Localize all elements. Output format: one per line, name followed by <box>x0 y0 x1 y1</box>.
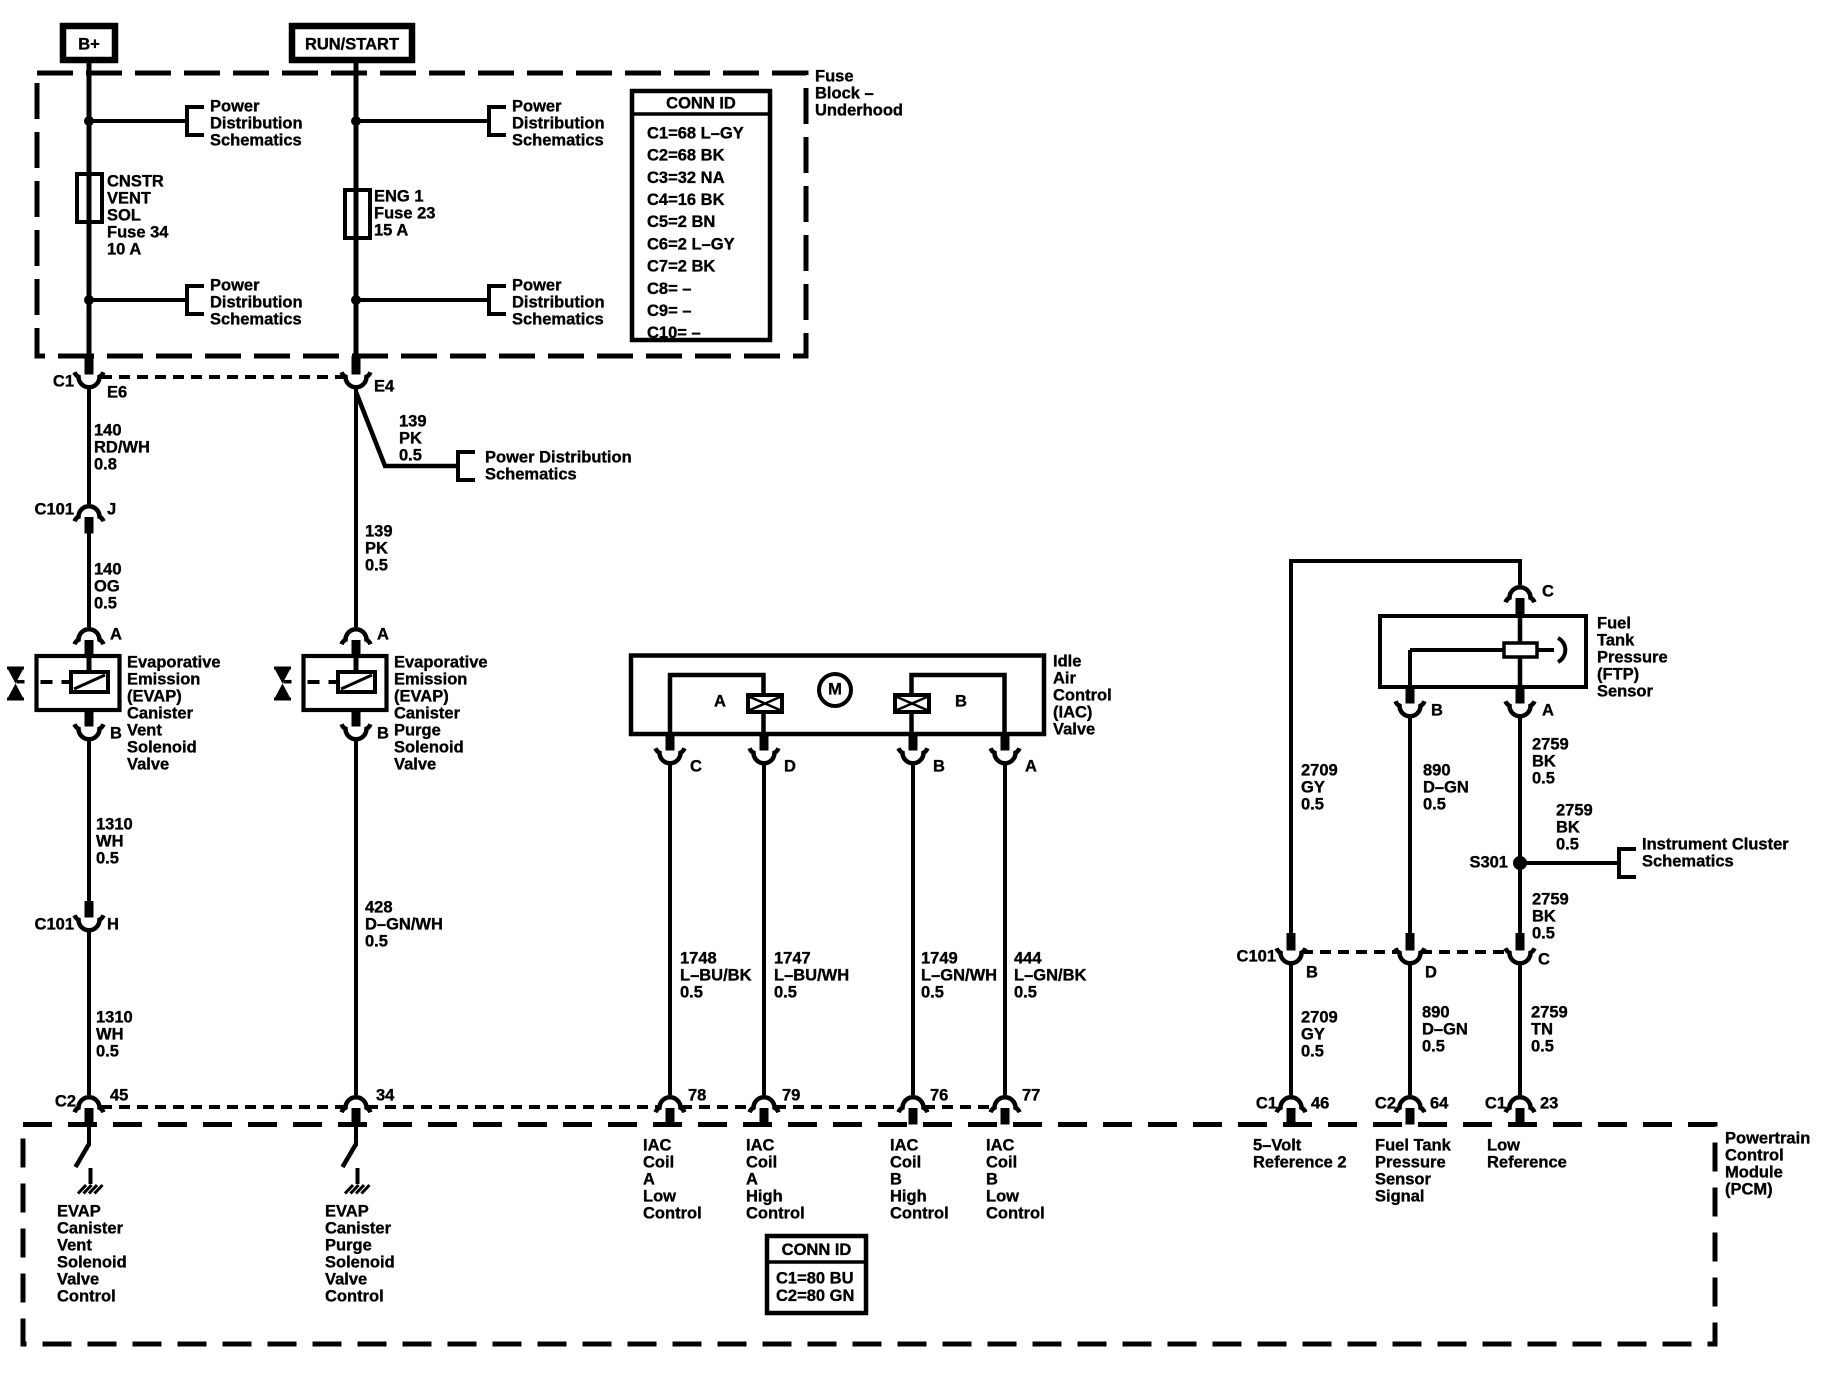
wire branch to power distribution lower right <box>356 298 489 302</box>
svg-text:M: M <box>828 680 842 698</box>
svg-text:D: D <box>1425 964 1437 982</box>
connector C101 mating dashed line right <box>1302 950 1399 954</box>
connector pin A purge solenoid <box>342 629 371 644</box>
junction dot RUN upper <box>351 116 361 126</box>
connector C101 pin B <box>1287 933 1296 951</box>
svg-text:A: A <box>1542 702 1554 720</box>
connector C1 pin E4 <box>352 356 361 375</box>
reference Power Distribution Schematics lower left <box>187 286 204 314</box>
connector pin A FTP <box>1516 687 1525 704</box>
power feed RUN/START terminal <box>292 26 412 60</box>
svg-text:C: C <box>690 758 702 776</box>
svg-text:77: 77 <box>1022 1087 1040 1105</box>
connector C101 pin H <box>85 901 94 918</box>
svg-text:64: 64 <box>1430 1095 1449 1113</box>
PCM driver EVAP purge solenoid control <box>354 1127 358 1146</box>
svg-text:J: J <box>107 501 116 519</box>
wire 2759 TN 0.5 <box>1518 963 1522 1095</box>
svg-text:H: H <box>107 916 119 934</box>
svg-text:C1: C1 <box>53 373 74 391</box>
svg-text:CONN ID: CONN ID <box>666 94 736 112</box>
svg-text:76: 76 <box>930 1087 948 1105</box>
svg-text:B: B <box>1306 964 1318 982</box>
CONN ID table PCM <box>767 1236 866 1313</box>
fuse block underhood dashed box <box>37 73 806 356</box>
svg-text:34: 34 <box>376 1087 395 1105</box>
wire 140 RD/WH 0.8 <box>87 389 91 504</box>
PCM powertrain control module dashed box <box>23 1125 1715 1345</box>
PCM driver EVAP vent solenoid control <box>87 1127 91 1146</box>
EVAP canister vent solenoid valve <box>37 656 120 710</box>
fuse F34 CNSTR VENT SOL 10A <box>77 174 102 222</box>
svg-text:B: B <box>110 725 122 743</box>
wire 2709 GY 0.5 lower <box>1289 963 1293 1095</box>
wire 2759 BK 0.5 upper <box>1518 716 1522 863</box>
svg-text:RUN/START: RUN/START <box>305 35 399 53</box>
svg-text:79: 79 <box>782 1087 800 1105</box>
connector C1 pin E6 <box>85 356 94 375</box>
svg-text:B+: B+ <box>78 35 100 53</box>
connector C2 pin 64 <box>1396 1097 1425 1112</box>
connector pin B IAC <box>909 734 918 751</box>
connector pin 77 <box>991 1097 1020 1112</box>
junction dot RUN lower <box>351 295 361 305</box>
wire 1310 WH 0.5 lower <box>87 930 91 1095</box>
svg-text:E6: E6 <box>107 384 127 402</box>
wire 139 PK 0.5 vertical <box>354 389 358 627</box>
wire branch to power distribution upper left <box>89 119 187 123</box>
reference Instrument Cluster Schematics <box>1619 849 1636 877</box>
svg-text:C101: C101 <box>35 501 74 519</box>
connector C1 pin 23 <box>1506 1097 1535 1112</box>
junction dot B+ lower <box>84 295 94 305</box>
wire RUN/START vertical <box>354 60 359 358</box>
svg-text:B: B <box>377 725 389 743</box>
svg-text:B: B <box>933 758 945 776</box>
reference Power Distribution Schematics lower right <box>489 286 506 314</box>
svg-text:S301: S301 <box>1469 854 1508 872</box>
wire branch to power distribution lower left <box>89 298 187 302</box>
wire 1749 L-GN/WH 0.5 <box>911 763 915 1095</box>
wire 444 L-GN/BK 0.5 <box>1003 763 1007 1095</box>
svg-text:A: A <box>714 693 726 711</box>
svg-text:C101: C101 <box>1237 948 1276 966</box>
svg-text:A: A <box>1025 758 1037 776</box>
CONN ID table fuse block <box>632 91 770 340</box>
power feed B+ terminal <box>63 26 115 60</box>
connector pin B purge solenoid <box>352 710 361 727</box>
connector pin 78 <box>656 1097 685 1112</box>
connector C101 pin C <box>1516 933 1525 951</box>
wire 890 D-GN 0.5 upper <box>1408 716 1412 938</box>
svg-text:45: 45 <box>110 1087 128 1105</box>
svg-text:B: B <box>1431 702 1443 720</box>
wire 140 OG 0.5 <box>87 533 91 627</box>
connector pin B FTP <box>1406 687 1415 704</box>
wire 1747 L-BU/WH 0.5 <box>762 763 766 1095</box>
FTP fuel tank pressure sensor <box>1380 616 1586 687</box>
connector pin A vent solenoid <box>75 629 104 644</box>
wire B+ vertical <box>87 60 92 358</box>
svg-text:B: B <box>955 693 967 711</box>
wire 2759 BK 0.5 lower <box>1518 863 1522 938</box>
connector pin B vent solenoid <box>85 710 94 727</box>
wire 2759 BK to instrument cluster <box>1520 861 1619 865</box>
wire 2709 GY top run <box>1291 561 1520 938</box>
junction dot B+ upper <box>84 116 94 126</box>
IAC idle air control valve <box>631 656 1044 735</box>
connector C101 pin D <box>1406 933 1415 951</box>
svg-text:C2: C2 <box>1375 1095 1396 1113</box>
reference Power Distribution Schematics upper left <box>187 107 204 135</box>
connector pin D IAC <box>760 734 769 751</box>
svg-text:C1=80 BUC2=80 GN: C1=80 BUC2=80 GN <box>776 1269 854 1305</box>
connector pin A IAC <box>1001 734 1010 751</box>
connector C2 mating dashed line <box>101 1105 345 1109</box>
wire 139 PK branch diagonal <box>356 392 458 466</box>
svg-text:C1: C1 <box>1485 1095 1506 1113</box>
connector pin 76 <box>899 1097 928 1112</box>
wire 890 D-GN 0.5 lower <box>1408 963 1412 1095</box>
reference Power Distribution Schematics branch <box>458 452 475 480</box>
fuse F23 ENG 1 15A <box>345 190 370 238</box>
connector pin C FTP <box>1506 587 1535 602</box>
svg-text:23: 23 <box>1540 1095 1558 1113</box>
svg-text:C101: C101 <box>35 916 74 934</box>
svg-text:D: D <box>784 758 796 776</box>
svg-text:CONN ID: CONN ID <box>782 1241 852 1259</box>
wire branch to power distribution upper right <box>356 119 489 123</box>
svg-text:E4: E4 <box>374 378 395 396</box>
connector C2 pin 45 <box>75 1097 104 1112</box>
connector pin C IAC <box>666 734 675 751</box>
svg-text:C2: C2 <box>55 1093 76 1111</box>
splice S301 <box>1513 856 1527 870</box>
svg-text:A: A <box>110 626 122 644</box>
wire 1310 WH 0.5 upper <box>87 739 91 901</box>
svg-text:C: C <box>1542 583 1554 601</box>
EVAP canister purge solenoid valve <box>304 656 387 710</box>
connector C1 pin 46 <box>1277 1097 1306 1112</box>
wire 428 D-GN/WH 0.5 <box>354 739 358 1095</box>
wire 1748 L-BU/BK 0.5 <box>668 763 672 1095</box>
connector C101 pin J <box>75 506 104 521</box>
connector C2 pin 34 <box>342 1097 371 1112</box>
svg-text:C1: C1 <box>1256 1095 1277 1113</box>
svg-text:A: A <box>377 626 389 644</box>
reference Power Distribution Schematics upper right <box>489 107 506 135</box>
connector pin 79 <box>750 1097 779 1112</box>
svg-text:46: 46 <box>1311 1095 1329 1113</box>
svg-text:78: 78 <box>688 1087 706 1105</box>
connector C1 mating dashed line <box>101 375 345 379</box>
svg-text:C: C <box>1538 951 1550 969</box>
